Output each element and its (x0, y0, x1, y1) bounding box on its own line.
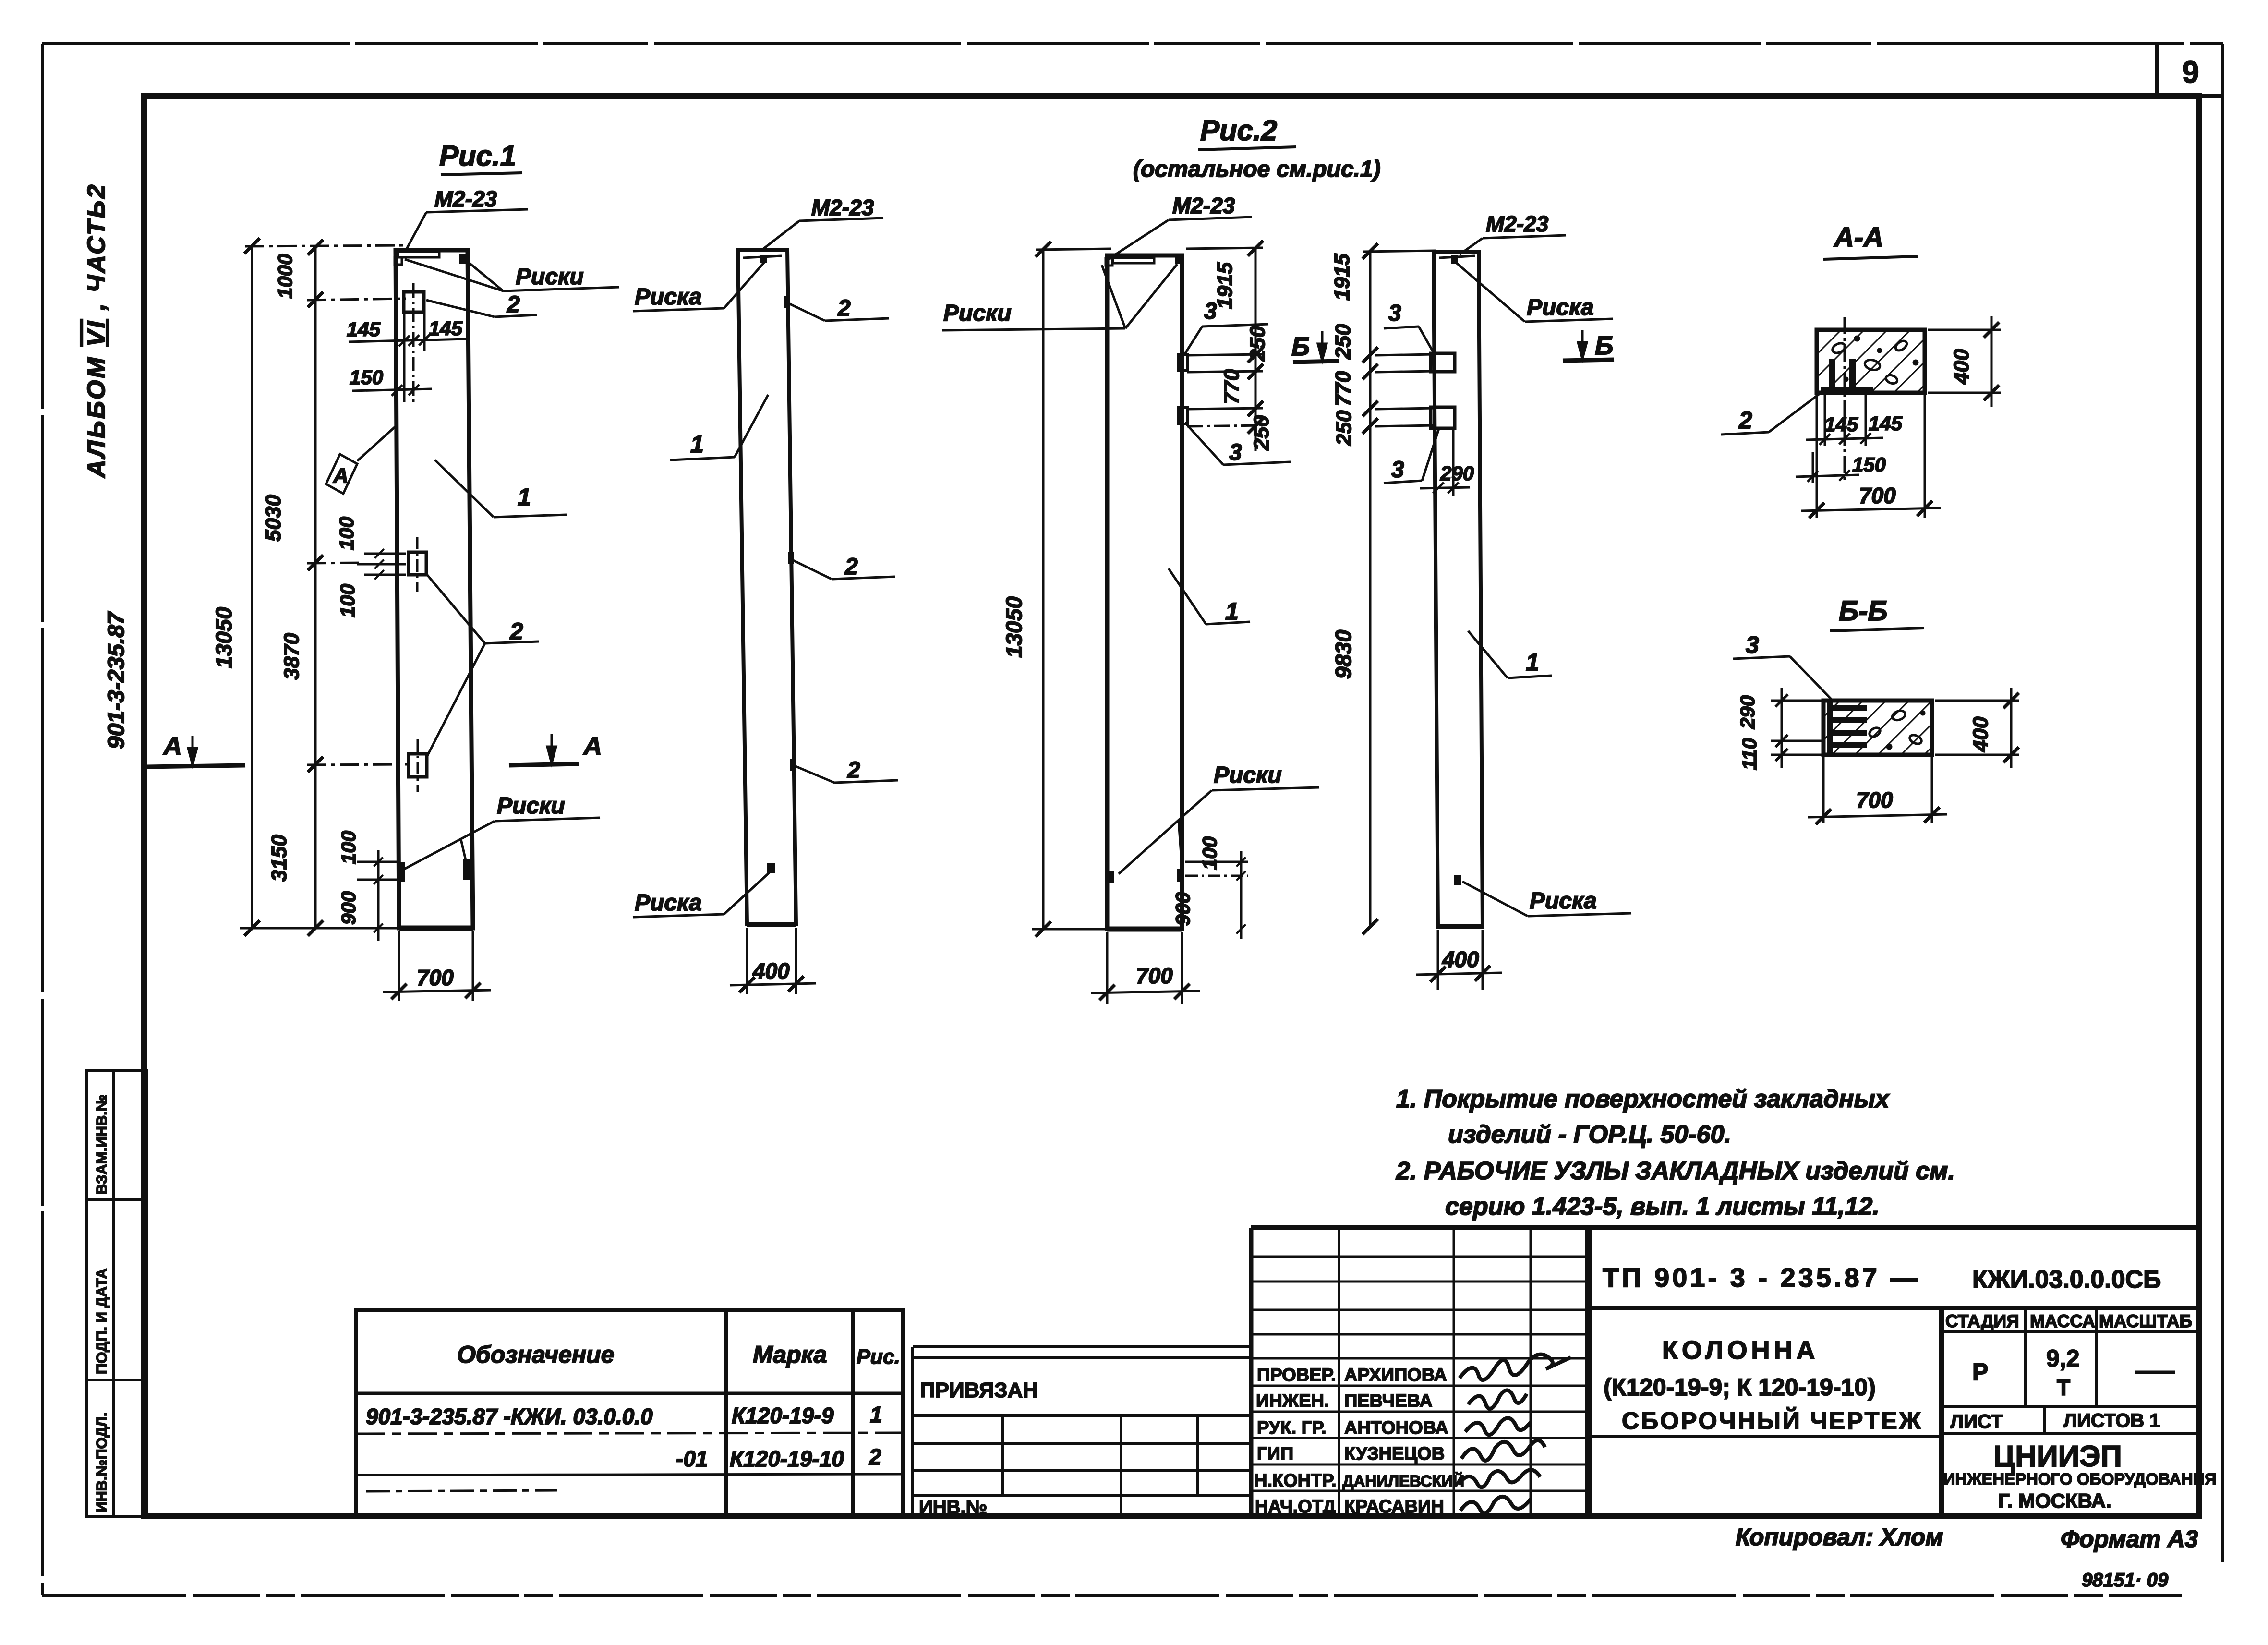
svg-text:770: 770 (1331, 371, 1355, 406)
section A-A body (1817, 330, 1925, 393)
svg-text:А: А (582, 732, 602, 761)
svg-text:5030: 5030 (262, 495, 285, 542)
edge plate 3 upper side (1431, 353, 1455, 372)
riska mark fig2 side top (1451, 255, 1458, 264)
svg-text:Марка: Марка (753, 1341, 827, 1368)
svg-text:9830: 9830 (1331, 629, 1356, 679)
svg-text:ЛИСТОВ 1: ЛИСТОВ 1 (2063, 1410, 2160, 1431)
svg-text:1: 1 (518, 484, 531, 510)
view marker A rhombus (326, 454, 357, 494)
edge plate 3 lower (1179, 408, 1187, 424)
svg-text:КУЗНЕЦОВ: КУЗНЕЦОВ (1344, 1444, 1445, 1464)
edge plate 3 lower side (1431, 407, 1455, 428)
dim 400 col2 (746, 928, 748, 994)
riska mark bottom-right (463, 859, 471, 880)
svg-text:(К120-19-9; К 120-19-10): (К120-19-9; К 120-19-10) (1604, 1374, 1876, 1401)
svg-text:АРХИПОВА: АРХИПОВА (1344, 1365, 1447, 1385)
fig2 side top plate (1439, 256, 1475, 258)
svg-text:100: 100 (335, 517, 358, 550)
svg-text:290: 290 (1440, 462, 1474, 484)
svg-text:250: 250 (1332, 410, 1356, 446)
svg-text:серию 1.423-5, вып. 1 листы: серию 1.423-5, вып. 1 листы 11,12. (1445, 1193, 1880, 1221)
svg-text:2: 2 (847, 758, 860, 783)
svg-text:9: 9 (2182, 55, 2199, 89)
svg-text:Риска: Риска (635, 890, 702, 916)
svg-text:700: 700 (1136, 963, 1173, 988)
svg-text:ПЕВЧЕВА: ПЕВЧЕВА (1344, 1391, 1433, 1411)
main dim 13050 fig2 (1042, 249, 1045, 929)
svg-text:Риска: Риска (1530, 888, 1597, 914)
section cut A left (147, 765, 245, 767)
svg-text:ПРИВЯЗАН: ПРИВЯЗАН (920, 1379, 1038, 1402)
svg-text:ВЗАМ.ИНВ.№: ВЗАМ.ИНВ.№ (93, 1095, 110, 1195)
svg-text:290: 290 (1736, 695, 1759, 729)
section cut A right (509, 764, 579, 765)
svg-text:100: 100 (337, 831, 360, 864)
signature table row labels (1254, 1365, 1337, 1517)
dim 110-290 B-B (1771, 700, 1822, 702)
svg-text:250: 250 (1250, 415, 1273, 451)
svg-text:КРАСАВИН: КРАСАВИН (1344, 1497, 1444, 1517)
svg-text:К120-19-10: К120-19-10 (730, 1446, 844, 1471)
dim 900 fig2 bottom (1240, 851, 1243, 939)
dim 145-145 A-A (1824, 395, 1826, 446)
svg-text:400: 400 (1969, 716, 1992, 752)
svg-text:9,2: 9,2 (2046, 1345, 2080, 1372)
svg-text:ПРОВЕР.: ПРОВЕР. (1257, 1365, 1336, 1385)
svg-text:901-3-235.87: 901-3-235.87 (104, 611, 129, 749)
svg-text:Т: Т (2057, 1375, 2070, 1400)
fig2 top plate (1113, 258, 1154, 263)
side top plate (743, 256, 782, 258)
riska mark fig2 top-right (1175, 254, 1182, 264)
svg-text:Н.КОНТР.: Н.КОНТР. (1254, 1471, 1337, 1491)
dim 400 A-A (1928, 329, 2001, 331)
dim 100 fig2 bottom (1185, 861, 1248, 863)
svg-text:900: 900 (1171, 892, 1194, 926)
svg-text:Формат А3: Формат А3 (2061, 1525, 2198, 1552)
svg-text:КОЛОННА: КОЛОННА (1662, 1336, 1819, 1365)
svg-text:А: А (162, 732, 182, 761)
riska mark fig2 side bottom (1454, 875, 1461, 885)
svg-text:250: 250 (1246, 326, 1269, 362)
svg-text:Риски: Риски (943, 301, 1012, 326)
svg-text:АЛЬБОМ VI , ЧАСТЬ2: АЛЬБОМ VI , ЧАСТЬ2 (83, 183, 110, 479)
riska mark bottom-left (397, 862, 405, 882)
dim 900 bottom (377, 850, 380, 941)
middle table privyazan (913, 1347, 1251, 1516)
column K120-19-10 outline (1107, 255, 1182, 929)
riska mark top-right (459, 254, 466, 264)
A-A centerline (1844, 317, 1846, 484)
inner frame (144, 96, 2199, 1516)
svg-text:МАСШТАБ: МАСШТАБ (2099, 1311, 2192, 1331)
column K120-19-10 side outline (1434, 252, 1483, 927)
svg-text:ИНЖЕНЕРНОГО ОБОРУДОВАНИЯ: ИНЖЕНЕРНОГО ОБОРУДОВАНИЯ (1943, 1470, 2217, 1488)
lower embedded plate item2 (409, 754, 427, 777)
svg-text:Риски: Риски (1214, 762, 1282, 788)
signatures (1459, 1355, 1571, 1513)
edge mark 2 upper (784, 296, 790, 308)
section cut B left (1293, 361, 1339, 362)
svg-text:100: 100 (336, 584, 359, 617)
svg-text:1000: 1000 (274, 254, 296, 299)
svg-text:110: 110 (1738, 738, 1761, 770)
svg-text:Обозначение: Обозначение (457, 1341, 615, 1368)
svg-text:2: 2 (844, 554, 858, 580)
svg-text:3: 3 (1229, 440, 1242, 465)
svg-text:А-А: А-А (1833, 222, 1883, 253)
svg-text:1915: 1915 (1330, 254, 1354, 301)
svg-text:250: 250 (1331, 324, 1355, 360)
dim 700 A-A (1816, 395, 1818, 518)
svg-text:ДАНИЛЕВСКИЙ: ДАНИЛЕВСКИЙ (1342, 1472, 1464, 1490)
svg-text:М2-23: М2-23 (1172, 193, 1235, 218)
svg-text:2: 2 (509, 618, 523, 645)
svg-text:ТП 901- 3 - 235.87 —: ТП 901- 3 - 235.87 — (1603, 1262, 1920, 1293)
dim 100 bottom (357, 861, 399, 863)
svg-text:НАЧ.ОТД: НАЧ.ОТД (1255, 1497, 1336, 1517)
svg-text:ИНВ.№ПОДЛ.: ИНВ.№ПОДЛ. (93, 1412, 110, 1512)
svg-text:150: 150 (350, 366, 383, 388)
svg-text:Риска: Риска (1527, 295, 1594, 320)
dim chain left of col4 (1369, 251, 1372, 927)
svg-text:1. Покрытие поверхностей: 1. Покрытие поверхностей закладных (1396, 1085, 1890, 1113)
svg-text:Рис.2: Рис.2 (1200, 114, 1277, 146)
svg-text:МАССА: МАССА (2030, 1311, 2095, 1331)
svg-text:2: 2 (837, 296, 851, 321)
dim 150 A-A (1812, 452, 1814, 483)
signature table grid (1251, 1228, 1589, 1516)
section cut B right (1563, 360, 1614, 361)
svg-text:СБОРОЧНЫЙ ЧЕРТЕЖ: СБОРОЧНЫЙ ЧЕРТЕЖ (1622, 1407, 1923, 1434)
svg-text:Рис.: Рис. (857, 1345, 900, 1368)
section B-B body (1823, 701, 1932, 755)
svg-text:900: 900 (337, 891, 360, 925)
svg-text:М2-23: М2-23 (1486, 211, 1549, 236)
page number box 9 (2157, 44, 2223, 96)
svg-text:700: 700 (1856, 787, 1893, 812)
riska mark fig2 top-left (1106, 258, 1112, 266)
riska mark fig2 bottom-left (1107, 871, 1114, 883)
svg-text:3150: 3150 (267, 835, 291, 882)
svg-text:2: 2 (1738, 407, 1752, 434)
svg-text:13050: 13050 (1001, 596, 1026, 658)
svg-text:РУК. ГР.: РУК. ГР. (1257, 1418, 1327, 1438)
svg-text:КЖИ.03.0.0.0СБ: КЖИ.03.0.0.0СБ (1972, 1266, 2161, 1294)
svg-text:А: А (333, 464, 349, 487)
svg-text:2. РАБОЧИЕ УЗЛЫ ЗАКЛАДНЫХ и: 2. РАБОЧИЕ УЗЛЫ ЗАКЛАДНЫХ изделий см. (1396, 1157, 1955, 1185)
svg-text:Риска: Риска (635, 284, 702, 310)
svg-text:СТАДИЯ: СТАДИЯ (1945, 1311, 2019, 1331)
riska mark side bottom (767, 863, 775, 873)
sub dim line col1 (314, 247, 317, 928)
svg-text:400: 400 (752, 958, 790, 983)
riska mark side top (760, 255, 767, 263)
svg-text:Б-Б: Б-Б (1839, 595, 1887, 627)
svg-text:901-3-235.87 -КЖИ. 03.0.0.0: 901-3-235.87 -КЖИ. 03.0.0.0 (366, 1404, 653, 1429)
dim 290 (1452, 430, 1455, 496)
svg-text:2: 2 (507, 292, 520, 317)
svg-text:3: 3 (1391, 457, 1404, 483)
svg-text:Р: Р (1972, 1358, 1988, 1385)
svg-text:Копировал: Хлом: Копировал: Хлом (1736, 1524, 1943, 1550)
svg-text:2: 2 (869, 1444, 881, 1469)
svg-text:М2-23: М2-23 (811, 195, 874, 220)
mid embedded plate item2 (409, 552, 426, 575)
designation table (356, 1310, 903, 1516)
svg-text:К120-19-9: К120-19-9 (732, 1403, 834, 1428)
svg-text:ГИП: ГИП (1257, 1444, 1293, 1464)
column K120-19-9 outline (396, 250, 473, 928)
svg-text:770: 770 (1220, 369, 1243, 404)
svg-text:145: 145 (347, 318, 381, 340)
svg-text:Риски: Риски (497, 793, 565, 819)
svg-text:400: 400 (1442, 947, 1479, 972)
svg-text:1: 1 (690, 431, 704, 458)
signature table names (1342, 1365, 1464, 1517)
svg-text:145: 145 (429, 317, 463, 339)
svg-text:М2-23: М2-23 (434, 186, 497, 211)
left stamp boxes (87, 1070, 147, 1516)
edge mark 2 middle (788, 552, 794, 564)
dim 700 fig2 (1106, 932, 1109, 1004)
dim 100-100 mid (364, 553, 406, 555)
svg-text:АНТОНОВА: АНТОНОВА (1344, 1418, 1448, 1438)
svg-text:ЛИСТ: ЛИСТ (1950, 1411, 2003, 1432)
svg-text:ИНВ.№: ИНВ.№ (919, 1497, 987, 1518)
main dim line 13050 (251, 245, 253, 928)
svg-text:13050: 13050 (211, 607, 236, 668)
anchor plate item2 top (404, 292, 424, 312)
svg-text:Б: Б (1595, 331, 1613, 360)
svg-text:изделий - ГОР.Ц. 50-60.: изделий - ГОР.Ц. 50-60. (1448, 1121, 1731, 1149)
svg-text:700: 700 (417, 965, 454, 990)
riska mark top-left (395, 257, 402, 265)
svg-text:150: 150 (1852, 453, 1886, 476)
svg-text:3: 3 (1746, 631, 1759, 658)
edge mark 2 lower (790, 759, 796, 771)
svg-text:145: 145 (1869, 412, 1903, 435)
embedded channel in B-B (1827, 702, 1833, 754)
dim chain right of col3 (1255, 248, 1257, 451)
dim 400 B-B (1935, 700, 2019, 702)
top embedded plate M2-23 (398, 252, 439, 257)
svg-text:ПОДП. И ДАТА: ПОДП. И ДАТА (93, 1268, 110, 1374)
svg-text:98151· 09: 98151· 09 (2082, 1570, 2169, 1591)
svg-text:400: 400 (1950, 349, 1973, 385)
dim 150 top (352, 389, 432, 391)
svg-text:Б: Б (1291, 332, 1310, 361)
svg-text:1: 1 (1526, 649, 1539, 676)
svg-text:ИНЖЕН.: ИНЖЕН. (1256, 1391, 1329, 1411)
svg-text:Г. МОСКВА.: Г. МОСКВА. (1998, 1489, 2111, 1512)
svg-text:1915: 1915 (1213, 262, 1237, 309)
dim 145-145 top (349, 339, 467, 342)
title block outer (1251, 1228, 2199, 1516)
svg-text:1: 1 (870, 1402, 882, 1427)
svg-text:145: 145 (1824, 413, 1858, 435)
anchor bars in A-A (1829, 359, 1835, 388)
dim 700 B-B (1822, 757, 1825, 823)
column K120-19-9 side view outline (738, 250, 796, 924)
dim 400 fig2 side (1437, 930, 1439, 990)
svg-text:(остальное см.рис.1): (остальное см.рис.1) (1133, 157, 1381, 182)
edge plate 3 upper (1179, 354, 1187, 371)
svg-text:ЦНИИЭП: ЦНИИЭП (1993, 1440, 2122, 1473)
svg-text:700: 700 (1859, 483, 1896, 508)
svg-text:3: 3 (1388, 301, 1401, 326)
svg-text:3870: 3870 (280, 633, 303, 680)
svg-text:100: 100 (1198, 836, 1221, 870)
riska mark fig2 bottom-right (1177, 869, 1184, 882)
svg-text:Рис.1: Рис.1 (439, 140, 516, 172)
svg-text:1: 1 (1225, 598, 1239, 625)
svg-text:-01: -01 (676, 1446, 708, 1471)
svg-text:Риски: Риски (516, 264, 584, 290)
dim 700 bottom col1 (398, 931, 400, 1001)
